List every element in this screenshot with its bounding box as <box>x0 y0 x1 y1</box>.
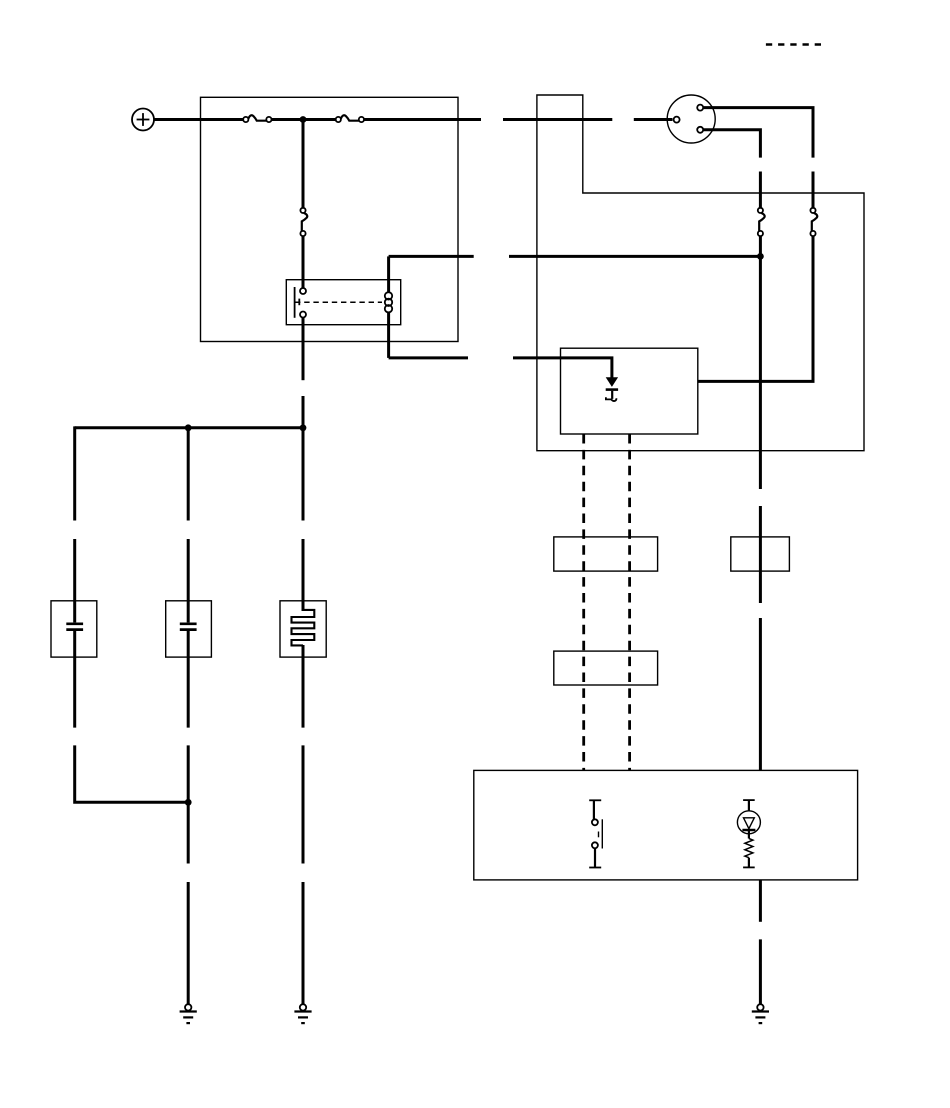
wire fuse F3 down to junction <box>759 236 762 258</box>
fuse F4 (vertical, right) <box>810 208 817 236</box>
wire segment 2 <box>503 118 612 121</box>
noise suppressor box <box>280 601 326 657</box>
wire middle drop segment 2 <box>759 172 762 208</box>
middle column lead below C2 segment 1 <box>187 657 190 728</box>
capacitor C1 box <box>51 601 97 657</box>
noise suppressor element (meander) <box>292 601 315 657</box>
wire segment 2 to ground <box>759 939 762 1004</box>
left column drop segment 2 <box>73 539 76 601</box>
wire fuse1 to fuse2 <box>272 118 337 121</box>
diode unit box outline <box>561 348 698 434</box>
L-shaped control unit box outline <box>537 95 864 451</box>
wire relay coil bottom to diode (segment A) <box>389 356 468 359</box>
right column drop segment 2 <box>302 539 305 601</box>
ground G2 (right column) <box>294 1004 311 1023</box>
indicator lamp with resistor in bottom unit <box>737 800 760 867</box>
left bus horizontal wire <box>75 426 303 429</box>
ignition switch connector (round, 3 pins) <box>667 95 715 143</box>
capacitor C2 <box>180 601 197 657</box>
wire from connector top-right pin to right drop <box>703 108 813 158</box>
wire relay lower contact down (segment 1) <box>302 318 305 381</box>
relay internal dashed link <box>295 301 382 303</box>
fuse F1 (horizontal) <box>243 115 271 122</box>
junction node (battery bus) <box>300 116 307 123</box>
middle column drop segment 1 <box>187 428 190 521</box>
middle column lead segment 2 <box>187 745 190 863</box>
relay box outline <box>286 280 400 325</box>
bottom unit box outline <box>474 770 858 880</box>
wire junction down segment 1 <box>759 256 762 489</box>
ground G3 (bottom right) <box>752 1004 769 1023</box>
connector box C (in-line connector, lower) <box>554 651 658 685</box>
relay coil <box>385 256 392 358</box>
right column lead below suppressor segment 1 <box>302 657 305 728</box>
right column drop segment 1 <box>302 428 305 521</box>
wire segment 2 through connector box B <box>759 506 762 603</box>
left column lead below C1 segment 1 <box>73 657 76 728</box>
dashed lead from diode box pin 2 <box>628 434 631 770</box>
horizontal wire relay coil to junction (segment A) <box>389 255 474 258</box>
junction node middle column <box>185 424 192 431</box>
wire fuse5 to relay upper contact <box>302 236 305 288</box>
wire battery to fuse 1 <box>154 118 244 121</box>
junction node right column <box>300 424 307 431</box>
wire bottom unit to ground segment 1 <box>759 880 762 922</box>
junction node at relay coil feed <box>757 253 764 260</box>
pressure switch symbol in bottom unit <box>589 800 602 867</box>
wire segment 2 to left bus <box>302 396 305 428</box>
wire fuse2 toward connector (segment 1) <box>364 118 481 121</box>
dashed marker (harness continuation) top right <box>766 43 821 46</box>
right column lead segment 3 to ground <box>302 882 305 1004</box>
middle column lead segment 3 to ground <box>187 882 190 1004</box>
connector box B (in-line connector, right) <box>731 537 790 571</box>
wire right drop segment 2 <box>812 172 815 208</box>
fuse F2 (horizontal) <box>336 115 364 122</box>
capacitor C2 box <box>166 601 212 657</box>
ground G1 (middle column) <box>180 1004 197 1023</box>
left column lead segment 2 with turn to middle <box>75 745 189 802</box>
wire fuse F4 down then left to diode box <box>699 236 814 381</box>
fuse F3 (vertical, middle) <box>758 208 765 236</box>
battery positive terminal B+ <box>132 109 154 131</box>
wire segment B into diode box <box>513 358 612 379</box>
left column drop segment 1 <box>73 426 76 520</box>
wire segment 3 to bottom unit <box>759 618 762 770</box>
fuse F5 (vertical, left) <box>300 208 307 236</box>
middle column drop segment 2 <box>187 539 190 601</box>
relay switch contacts <box>295 287 306 318</box>
dashed lead from diode box pin 1 <box>582 434 585 770</box>
under-hood fuse/relay box outline <box>201 97 459 341</box>
wire segment 3 into connector left pin <box>634 118 673 121</box>
wire from connector bottom-right pin to middle drop <box>703 130 760 158</box>
diode D1 <box>606 377 618 401</box>
horizontal wire segment B <box>509 255 760 258</box>
junction node at middle ground lead <box>185 799 192 806</box>
wire fuse1 junction down to relay <box>302 120 305 208</box>
capacitor C1 <box>66 601 83 657</box>
connector box A (in-line connector, left pair) <box>554 537 658 571</box>
right column lead segment 2 <box>302 745 305 863</box>
